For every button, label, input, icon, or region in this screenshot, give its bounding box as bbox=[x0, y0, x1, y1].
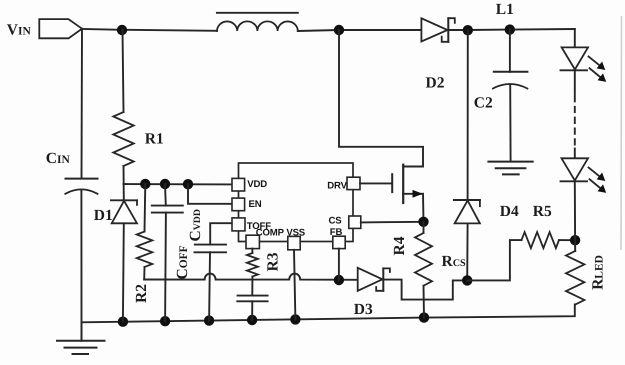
svg-text:D4: D4 bbox=[500, 203, 519, 220]
diode D3 bbox=[354, 268, 390, 318]
input connector VIN bbox=[7, 19, 82, 38]
capacitor COFF bbox=[152, 184, 191, 321]
diode D4 bbox=[454, 30, 519, 280]
svg-text:VDD: VDD bbox=[247, 179, 267, 190]
pin CS bbox=[329, 215, 361, 228]
junction rail COMP cap bbox=[247, 315, 257, 325]
capacitor CIN bbox=[46, 150, 98, 194]
node D4 / R5 junction bbox=[462, 275, 472, 285]
capacitor CVDD bbox=[187, 209, 226, 321]
wire CS to source node bbox=[361, 221, 424, 224]
wire VIN down to CIN bbox=[81, 29, 84, 179]
svg-text:L1: L1 bbox=[496, 1, 514, 18]
resistor R5 bbox=[522, 203, 576, 248]
wire VIN to L1 bbox=[82, 29, 217, 31]
wire D1 to rail bbox=[122, 223, 125, 321]
node switch junction bbox=[334, 25, 344, 35]
node FB junction bbox=[334, 275, 344, 285]
diode D2 bbox=[421, 18, 454, 91]
pin COMP bbox=[246, 227, 285, 248]
wire VSS to rail bbox=[294, 250, 295, 320]
resistor R1 bbox=[113, 30, 163, 166]
capacitor on COMP bbox=[237, 280, 267, 321]
dashed LED string wire bbox=[574, 70, 576, 148]
junction rail CVDD bbox=[204, 315, 214, 325]
svg-text:D3: D3 bbox=[354, 301, 373, 318]
svg-text:COMP: COMP bbox=[256, 227, 285, 238]
resistor R3 bbox=[247, 249, 281, 280]
pin EN bbox=[232, 198, 262, 211]
node R5 / RLED / LED junction bbox=[570, 235, 580, 245]
LED LED2 bbox=[561, 149, 607, 241]
node VIN junction bbox=[117, 25, 127, 35]
junction rail VSS bbox=[290, 314, 300, 324]
feedback net wire with hops bbox=[144, 274, 358, 280]
svg-text:D1: D1 bbox=[94, 207, 113, 224]
pin TOFF bbox=[232, 218, 271, 232]
node C2 junction bbox=[505, 24, 515, 34]
resistor RCS / R4 bbox=[391, 222, 466, 286]
resistor RLED bbox=[566, 240, 606, 304]
node R2 tap bbox=[140, 179, 150, 189]
svg-text:R4: R4 bbox=[391, 236, 408, 255]
wire EN stub bbox=[188, 184, 232, 204]
wire VDD rail bbox=[124, 183, 233, 185]
junction rail COFF bbox=[160, 316, 170, 326]
bottom ground rail wire bbox=[82, 305, 575, 323]
resistor R2 bbox=[133, 184, 152, 303]
pin FB bbox=[330, 227, 345, 249]
transistor Q1 gate wire bbox=[360, 182, 391, 184]
inductor L1 bbox=[217, 13, 298, 31]
svg-text:C2: C2 bbox=[474, 95, 493, 112]
svg-text:R1: R1 bbox=[145, 131, 164, 148]
svg-text:EN: EN bbox=[249, 199, 262, 210]
svg-text:VSS: VSS bbox=[286, 228, 305, 239]
wire CIN to ground rail bbox=[80, 190, 82, 322]
diode D1 bbox=[94, 166, 137, 224]
svg-text:D2: D2 bbox=[426, 75, 445, 92]
junction rail D1 bbox=[118, 317, 128, 327]
ground main bbox=[57, 322, 105, 354]
node COFF tap bbox=[160, 179, 170, 189]
IC U1 body bbox=[239, 163, 354, 242]
pin VSS bbox=[286, 228, 305, 250]
wire L1 to D2 bbox=[298, 30, 422, 31]
pin DRV bbox=[327, 177, 360, 192]
LED LED1 bbox=[561, 29, 607, 82]
node D4 top junction bbox=[463, 25, 473, 35]
svg-text:R5: R5 bbox=[533, 203, 552, 220]
node EN tap bbox=[183, 179, 193, 189]
wire FB pin down bbox=[338, 249, 340, 280]
wire D4 node to R5 bbox=[467, 240, 521, 280]
svg-text:R3: R3 bbox=[264, 252, 281, 271]
wire D2 cathode to LED top bbox=[448, 29, 575, 30]
node CS/source junction bbox=[418, 217, 428, 227]
junction rail RCS bbox=[419, 312, 429, 322]
wire TOFF to CVDD bbox=[210, 223, 232, 244]
ground for C2 bbox=[488, 162, 532, 175]
capacitor C2 bbox=[474, 30, 528, 162]
svg-text:FB: FB bbox=[330, 227, 343, 238]
svg-text:R2: R2 bbox=[133, 284, 150, 303]
svg-text:CS: CS bbox=[329, 215, 343, 226]
pin VDD bbox=[232, 178, 267, 191]
wire D3 jog to D4 node bbox=[383, 280, 467, 300]
svg-text:DRV: DRV bbox=[327, 181, 347, 192]
transistor Q1 bbox=[339, 30, 424, 222]
wire RCS to rail bbox=[423, 286, 426, 318]
